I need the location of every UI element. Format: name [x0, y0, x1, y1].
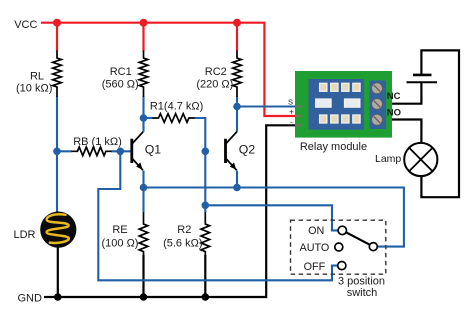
svg-text:S: S	[288, 98, 293, 107]
svg-text:Lamp: Lamp	[375, 153, 401, 165]
svg-text:VCC: VCC	[14, 19, 37, 31]
svg-text:R2: R2	[177, 224, 191, 236]
svg-text:Q2: Q2	[239, 143, 256, 157]
svg-text:LDR: LDR	[13, 229, 35, 241]
svg-text:(100 Ω): (100 Ω)	[102, 237, 139, 249]
svg-text:3 position: 3 position	[338, 276, 385, 288]
svg-text:ON: ON	[308, 225, 324, 237]
svg-text:Relay module: Relay module	[300, 141, 367, 153]
svg-text:RL: RL	[30, 70, 44, 82]
svg-text:RE: RE	[112, 224, 127, 236]
svg-text:switch: switch	[347, 287, 378, 299]
svg-text:RC2: RC2	[205, 66, 227, 78]
svg-text:OFF: OFF	[304, 261, 326, 273]
svg-text:(5.6 kΩ): (5.6 kΩ)	[163, 237, 202, 249]
svg-text:(10 kΩ): (10 kΩ)	[16, 83, 52, 95]
svg-text:(220 Ω): (220 Ω)	[196, 78, 233, 90]
svg-text:R1(4.7 kΩ): R1(4.7 kΩ)	[150, 101, 203, 113]
svg-text:RC1: RC1	[110, 66, 132, 78]
svg-text:+: +	[289, 107, 294, 117]
svg-text:NC: NC	[387, 91, 401, 102]
svg-text:RB (1 kΩ): RB (1 kΩ)	[73, 136, 122, 148]
svg-text:-: -	[290, 116, 293, 126]
svg-text:GND: GND	[18, 293, 43, 305]
svg-text:AUTO: AUTO	[300, 242, 330, 254]
svg-text:NO: NO	[387, 108, 401, 119]
svg-text:Q1: Q1	[145, 143, 162, 157]
svg-text:(560 Ω): (560 Ω)	[102, 78, 139, 90]
